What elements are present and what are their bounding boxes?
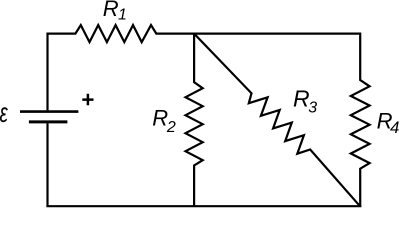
svg-text:R: R <box>152 105 168 130</box>
svg-text:R: R <box>103 0 119 21</box>
svg-text:R: R <box>293 85 310 111</box>
svg-text:ε: ε <box>0 97 8 128</box>
svg-text:1: 1 <box>118 7 127 24</box>
svg-text:3: 3 <box>308 100 317 117</box>
svg-text:4: 4 <box>390 118 399 137</box>
svg-text:2: 2 <box>166 119 176 136</box>
